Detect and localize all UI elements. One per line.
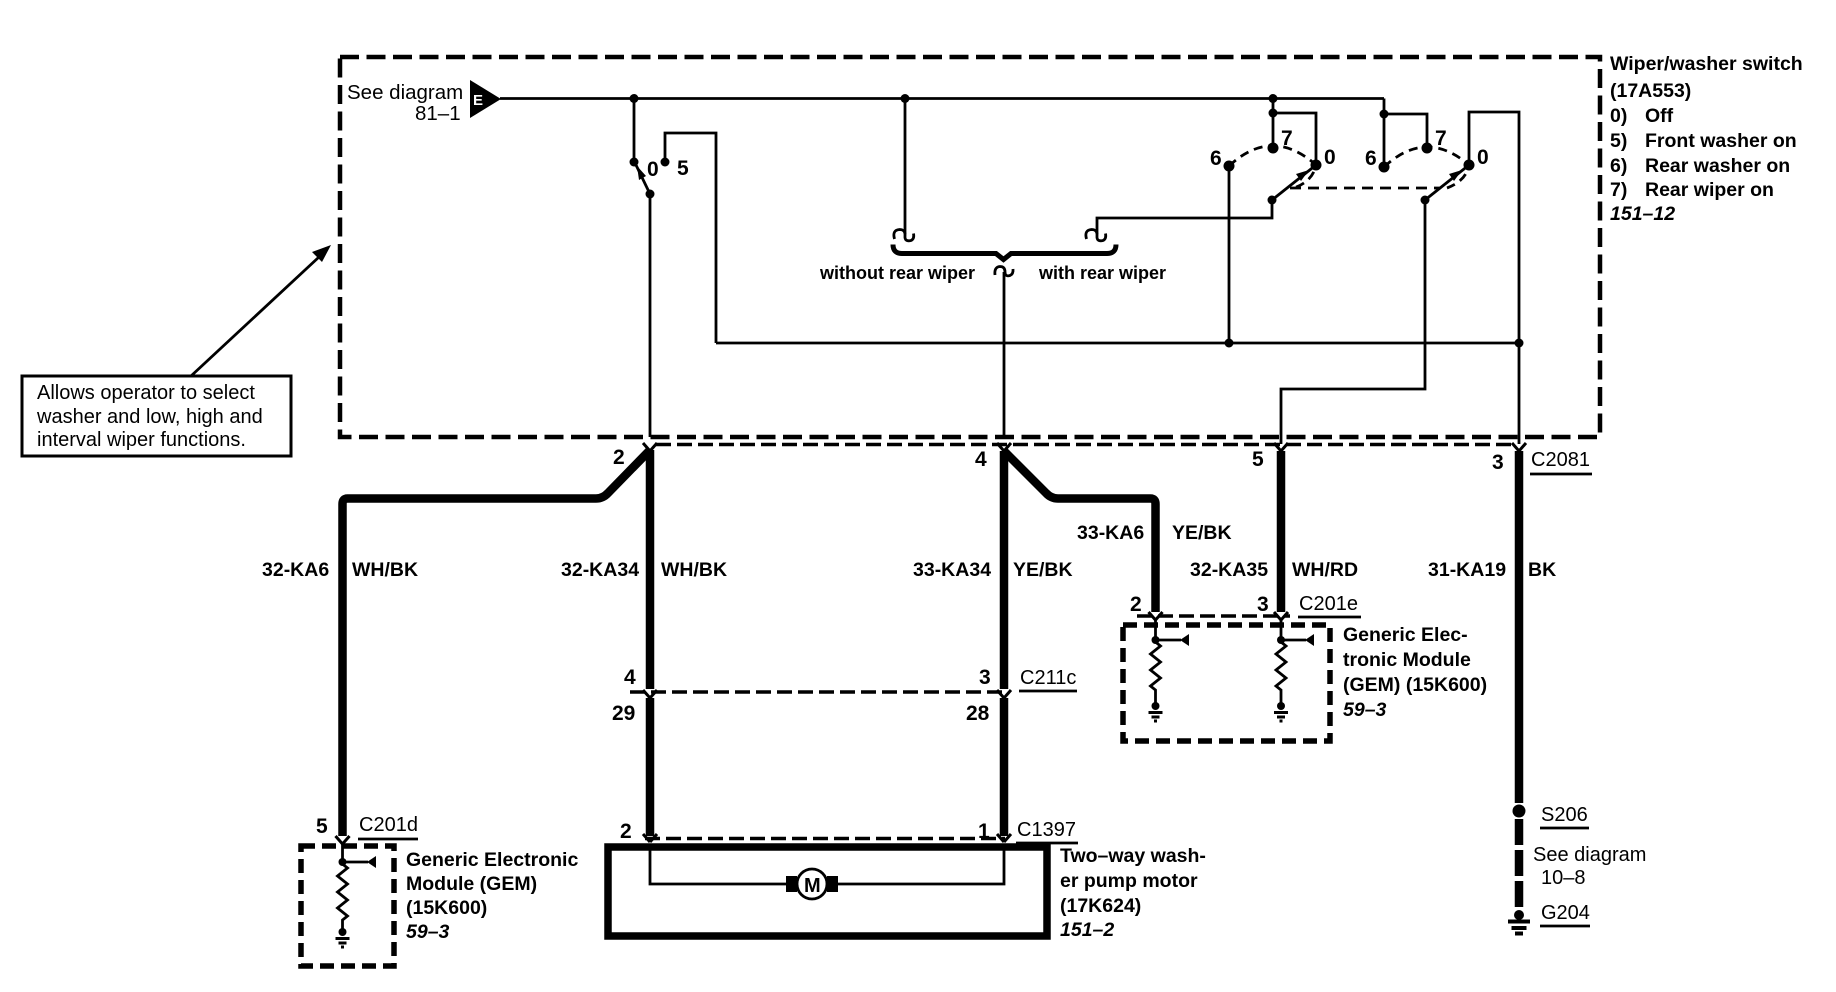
svg-text:See diagram: See diagram (1533, 844, 1646, 866)
wire: C211c to C1397 pin 1 (thick) (1000, 698, 1009, 836)
node: junction at rear washer switch (1269, 94, 1278, 103)
connector C2081 dashed line (656, 443, 1512, 447)
motor M1 (two-way washer pump) (786, 869, 838, 899)
node: junction at front washer switch (630, 94, 639, 103)
svg-text:1: 1 (978, 820, 990, 843)
node: rear wiper switch branch (1380, 110, 1389, 119)
front washer switch contact 5 (661, 158, 670, 167)
svg-text:C1397: C1397 (1017, 819, 1076, 841)
pin 5 arrow (C2081) (1274, 443, 1288, 451)
node: GEM input (C201d) (339, 858, 347, 866)
wire: to pin 4 (1003, 272, 1006, 437)
label: C211c (1019, 667, 1077, 691)
dashed arc: rear washer switch travel (1229, 146, 1316, 188)
resistor (GEM C201d pull-up) (338, 864, 348, 930)
pin 2 arrow (C1397) (643, 834, 657, 842)
svg-text:2: 2 (620, 820, 632, 843)
svg-text:C201e: C201e (1299, 593, 1358, 615)
callout box: Allows operator... (22, 376, 291, 456)
ground G204 (1508, 910, 1530, 934)
svg-text:Generic Electronic: Generic Electronic (406, 849, 578, 871)
svg-text:(17A553): (17A553) (1610, 80, 1691, 102)
ground (inside GEM C201d) (336, 939, 350, 948)
svg-text:2: 2 (1130, 593, 1142, 616)
pin 3 arrow (C201e) (1274, 612, 1288, 620)
label: S206 (1540, 804, 1589, 828)
svg-text:with rear wiper: with rear wiper (1038, 263, 1166, 283)
ground (GEM C201e branch B) (1274, 713, 1288, 722)
svg-text:33-KA34: 33-KA34 (913, 559, 991, 581)
node: junction at without-rear-wiper drop (901, 94, 910, 103)
svg-text:See diagram: See diagram (347, 81, 463, 104)
svg-text:S206: S206 (1541, 804, 1588, 826)
pin 4/29 arrow (C211c) (643, 690, 657, 698)
GEM input sense arrow B (C201e) (1281, 634, 1314, 646)
svg-text:WH/BK: WH/BK (352, 559, 418, 581)
svg-text:29: 29 (612, 702, 635, 725)
svg-text:Rear washer on: Rear washer on (1645, 155, 1790, 177)
wire: node to contact 7 of rear wiper switch (1384, 114, 1427, 144)
svg-text:WH/BK: WH/BK (661, 559, 727, 581)
node: GEM input B (C201e) (1277, 636, 1285, 644)
front washer switch contact 0 (630, 158, 639, 167)
svg-text:Allows operator to select: Allows operator to select (37, 382, 255, 404)
wire 31-KA19 BK (thick, pin3 to S206) (1515, 451, 1524, 803)
label: C1397 (1016, 819, 1078, 843)
GEM C201d dashed box (301, 846, 394, 966)
node: resistor bottom (C201d) (339, 928, 347, 936)
svg-text:G204: G204 (1541, 902, 1590, 924)
svg-text:Rear wiper on: Rear wiper on (1645, 179, 1774, 201)
rear washer switch contact 6 (1224, 161, 1235, 172)
svg-text:59–3: 59–3 (406, 921, 450, 943)
pin 3/28 arrow (C211c) (997, 690, 1011, 698)
svg-text:(15K600): (15K600) (406, 897, 487, 919)
GEM input sense arrow A (C201e) (1156, 634, 1190, 646)
splice S206 (1513, 805, 1526, 818)
svg-text:interval wiper functions.: interval wiper functions. (37, 429, 246, 451)
washer pump motor box (608, 847, 1047, 936)
svg-text:5): 5) (1610, 130, 1627, 152)
rear wiper switch contact 7 (1422, 143, 1433, 154)
svg-text:C201d: C201d (359, 814, 418, 836)
wire: C211c to C1397 pin 2 (thick) (646, 698, 655, 836)
svg-text:33-KA6: 33-KA6 (1077, 522, 1144, 544)
brace: without/with rear wiper (893, 245, 1116, 260)
svg-text:0: 0 (1477, 146, 1489, 169)
label: Two-way washer pump motor (1060, 845, 1206, 941)
svg-text:6: 6 (1210, 147, 1222, 170)
svg-text:7): 7) (1610, 179, 1627, 201)
rear wiper switch wiper arm (1421, 165, 1470, 205)
wire: contact 6 drop to bus y343 (1228, 166, 1231, 343)
connector C201e dashed line (1137, 614, 1290, 618)
svg-text:Generic Elec-: Generic Elec- (1343, 624, 1468, 646)
svg-text:5: 5 (1252, 448, 1264, 471)
svg-text:28: 28 (966, 702, 990, 725)
svg-text:0): 0) (1610, 105, 1627, 127)
svg-text:4: 4 (624, 666, 636, 689)
wire: node to contact 0 of rear washer switch (1273, 113, 1316, 161)
svg-text:3: 3 (1492, 451, 1504, 474)
wire: rear wiper wiper arm to pin 5 (1281, 200, 1425, 444)
pin 3 arrow (C2081) (1512, 443, 1526, 451)
callout arrow (191, 245, 331, 376)
node: contact-6 drop on bus (1225, 339, 1234, 348)
wiper/washer switch dashed box (340, 57, 1600, 437)
wire: feed bus from E (500, 97, 1384, 100)
svg-text:Off: Off (1645, 105, 1674, 127)
hook: without rear wiper wire end (894, 230, 914, 241)
wire: contact 0 riser to x1519 drop (1469, 112, 1519, 444)
svg-text:(17K624): (17K624) (1060, 895, 1141, 917)
wire 32-KA35 WH/RD (thick, pin5 to C201e pin3) (1277, 451, 1286, 612)
svg-text:4: 4 (975, 448, 987, 471)
label: See diagram 10-8 (1533, 844, 1646, 889)
node: GEM input A (C201e) (1152, 636, 1160, 644)
svg-text:without rear wiper: without rear wiper (819, 263, 975, 283)
label: Generic Electronic Module (GEM) (15K600) 59-3 (right) (1343, 624, 1487, 721)
svg-text:6): 6) (1610, 155, 1627, 177)
svg-text:3: 3 (979, 666, 991, 689)
wire: bus to contact 7 (1272, 99, 1275, 145)
svg-text:2: 2 (613, 446, 625, 469)
label: C201d (358, 814, 418, 839)
node: resistor A bottom (1152, 702, 1160, 710)
svg-text:tronic Module: tronic Module (1343, 649, 1471, 671)
svg-text:32-KA35: 32-KA35 (1190, 559, 1268, 581)
wire 33-KA34 YE/BK (thick, pin4 to C211c) (1000, 451, 1009, 689)
label: See diagram 81-1 (347, 81, 463, 125)
svg-text:10–8: 10–8 (1541, 867, 1586, 889)
svg-text:5: 5 (677, 157, 689, 180)
svg-text:E: E (473, 92, 483, 109)
legend: Wiper/washer switch (1610, 53, 1803, 225)
dashed mechanical coupling between wipers (1290, 187, 1440, 190)
svg-text:M: M (804, 875, 821, 897)
svg-text:59–3: 59–3 (1343, 699, 1387, 721)
svg-text:5: 5 (316, 815, 328, 838)
front washer switch: feed drop to contact 0 (633, 99, 636, 159)
label: C201e (1298, 593, 1361, 617)
wire 33-KA6 YE/BK (thick to C201e pin2) (1004, 451, 1156, 612)
rear wiper switch contact 6 (1379, 162, 1390, 173)
label: G204 (1540, 902, 1590, 926)
wire 32-KA6 WH/BK (thick L to C201d) (343, 450, 651, 836)
svg-text:Front washer on: Front washer on (1645, 130, 1797, 152)
svg-text:Two–way wash-: Two–way wash- (1060, 845, 1206, 867)
node: resistor B bottom (1277, 702, 1285, 710)
ground (GEM C201e branch A) (1149, 713, 1163, 722)
rear wiper switch contact 0 (1464, 160, 1475, 171)
hook: pin-4 wire top squiggle (995, 267, 1013, 276)
svg-text:31-KA19: 31-KA19 (1428, 559, 1506, 581)
svg-text:(GEM) (15K600): (GEM) (15K600) (1343, 674, 1487, 696)
rear wiper switch: feed corner drop (1383, 99, 1386, 164)
svg-text:0: 0 (1324, 146, 1336, 169)
svg-text:7: 7 (1281, 127, 1293, 150)
svg-text:YE/BK: YE/BK (1172, 522, 1232, 544)
svg-text:6: 6 (1365, 147, 1377, 170)
svg-text:Module (GEM): Module (GEM) (406, 873, 537, 895)
svg-text:C211c: C211c (1020, 667, 1076, 689)
svg-text:151–12: 151–12 (1610, 203, 1675, 225)
front washer switch wiper arm (636, 165, 655, 199)
svg-text:0: 0 (647, 158, 659, 181)
label: Generic Electronic Module (GEM) (15K600) 59-3 (406, 849, 578, 943)
svg-text:32-KA6: 32-KA6 (262, 559, 329, 581)
rear washer switch wiper arm (1268, 165, 1317, 205)
svg-text:7: 7 (1435, 127, 1447, 150)
svg-text:C2081: C2081 (1531, 449, 1590, 471)
wire: without-rear-wiper drop (904, 99, 907, 235)
wire: rear washer wiper to with-rear-wiper hook (1097, 200, 1272, 234)
connector C211c dashed line (630, 690, 1004, 694)
svg-text:32-KA34: 32-KA34 (561, 559, 639, 581)
svg-text:3: 3 (1257, 593, 1269, 616)
svg-text:81–1: 81–1 (415, 102, 461, 125)
pin 5 arrow (C201d) (336, 836, 350, 844)
label: C2081 (1530, 449, 1592, 474)
svg-text:YE/BK: YE/BK (1013, 559, 1073, 581)
svg-text:washer and low, high and: washer and low, high and (36, 406, 263, 428)
hook: with rear wiper wire end (1086, 230, 1106, 241)
dashed arc: rear wiper switch travel (1384, 147, 1469, 188)
connector E (triangle) (470, 80, 501, 118)
node: x1519 on bus (1515, 339, 1524, 348)
GEM C201e dashed box (1123, 625, 1330, 741)
wire: C201e pin 3 into GEM (1280, 620, 1283, 638)
pin 4 arrow (C2081) (997, 443, 1011, 451)
rear washer switch contact 7 (1268, 143, 1279, 154)
wire 32-KA34 WH/BK (thick, pin2 to C211c) (646, 450, 655, 689)
wire: C201e pin 2 into GEM (1154, 620, 1157, 638)
svg-text:BK: BK (1528, 559, 1556, 581)
pin 1 arrow (C1397) (997, 834, 1011, 842)
rear washer switch: node below bus (1269, 109, 1278, 118)
svg-text:151–2: 151–2 (1060, 919, 1114, 941)
wire: C201d pin into GEM (341, 844, 344, 860)
wire: motor feed left (650, 847, 788, 884)
connector C1397 dashed line (645, 837, 1005, 841)
wire: front washer switch wiper to pin 2 (649, 194, 652, 437)
svg-text:er pump motor: er pump motor (1060, 870, 1198, 892)
GEM input sense arrow (C201d) (343, 856, 377, 868)
wire: lower bus y343 (716, 342, 1519, 345)
svg-text:WH/RD: WH/RD (1292, 559, 1358, 581)
pin 2 arrow (C201e) (1149, 612, 1163, 620)
resistor (GEM C201e branch B) (1276, 642, 1286, 704)
wire: motor feed right (838, 847, 1004, 884)
wire: S206 to G204 (thick dashed) (1515, 819, 1524, 909)
pin 2 arrow (C2081) (643, 443, 657, 451)
resistor (GEM C201e branch A) (1151, 642, 1161, 704)
wire: contact 5 riser to bus x716 (665, 133, 716, 343)
rear washer switch contact 0 (1311, 160, 1322, 171)
svg-text:Wiper/washer switch: Wiper/washer switch (1610, 53, 1803, 75)
